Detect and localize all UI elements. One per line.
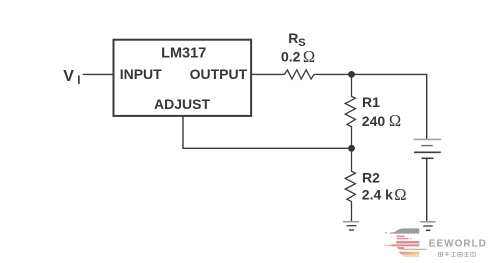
wire RS to node A xyxy=(314,73,351,75)
junction node B xyxy=(348,145,355,152)
label R1 value 240 ohm xyxy=(362,111,401,130)
ground below battery xyxy=(420,222,435,231)
node VI label xyxy=(63,68,80,87)
wire OUTPUT pin to RS xyxy=(251,73,284,75)
resistor RS xyxy=(284,70,314,79)
wire node A to battery positive xyxy=(352,74,427,139)
svg-text:R1: R1 xyxy=(362,94,380,110)
ground below R2 xyxy=(343,222,359,230)
svg-text:OUTPUT: OUTPUT xyxy=(190,66,248,82)
svg-text:Ω: Ω xyxy=(303,47,315,66)
wire battery negative to ground xyxy=(426,158,428,221)
svg-text:Ω: Ω xyxy=(394,185,406,204)
svg-text:EEWORLD: EEWORLD xyxy=(429,239,487,250)
label RS xyxy=(288,30,305,49)
svg-text:240: 240 xyxy=(362,113,386,129)
svg-text:V: V xyxy=(63,68,74,85)
junction node A xyxy=(348,71,355,78)
svg-text:2.4 k: 2.4 k xyxy=(362,187,393,203)
battery B1 xyxy=(414,139,442,158)
logo EEWORLD watermark xyxy=(384,228,487,256)
svg-text:Ω: Ω xyxy=(389,111,401,130)
wire ADJUST pin to node B xyxy=(183,117,348,149)
svg-text:LM317: LM317 xyxy=(161,46,206,62)
svg-text:R2: R2 xyxy=(362,170,380,186)
label R2 value 2.4 kohm xyxy=(362,185,407,204)
svg-text:INPUT: INPUT xyxy=(120,66,162,82)
wire VI to INPUT pin xyxy=(83,73,114,75)
svg-text:I: I xyxy=(77,75,80,87)
regulator U1 LM317 body xyxy=(114,40,252,116)
label RS value 0.2 ohm xyxy=(281,47,315,66)
svg-text:R: R xyxy=(288,30,298,46)
svg-text:0.2: 0.2 xyxy=(281,48,301,64)
resistor R2 xyxy=(345,148,355,221)
resistor R1 xyxy=(345,74,355,148)
svg-text:ADJUST: ADJUST xyxy=(154,96,210,112)
